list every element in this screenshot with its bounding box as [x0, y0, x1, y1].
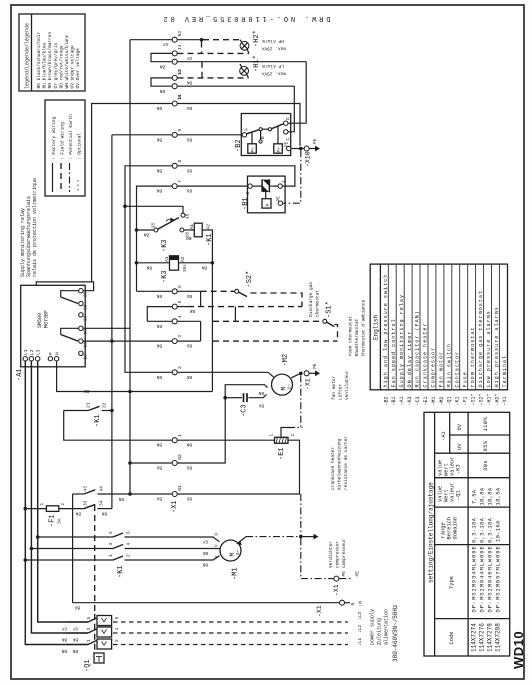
- svg-text:110%: 110%: [482, 417, 489, 432]
- svg-text:6,3-18A: 6,3-18A: [479, 517, 486, 543]
- svg-text:15: 15: [151, 222, 157, 228]
- svg-text:-C3: -C3: [241, 404, 249, 417]
- potential earth E1: [281, 428, 288, 438]
- svg-text:Fan motor: Fan motor: [439, 351, 445, 388]
- svg-text:P: P: [48, 352, 54, 355]
- wire link 5-4: [234, 307, 236, 322]
- supply monitoring relay description: [20, 178, 38, 277]
- legend line-style box: [45, 100, 85, 196]
- wire row 1 heater loop: [64, 411, 172, 441]
- node X10 PE: [291, 138, 320, 167]
- svg-text:3: 3: [177, 335, 183, 338]
- svg-text:-E1: -E1: [278, 447, 286, 460]
- svg-text:BN: BN: [156, 293, 162, 298]
- wire row 5 right: [178, 306, 189, 308]
- svg-text:-Q1: -Q1: [84, 659, 92, 672]
- svg-text:5: 5: [177, 300, 183, 303]
- B1 pressure element: [262, 199, 271, 208]
- svg-text:WD10: WD10: [511, 631, 526, 669]
- node N bus vertical: [129, 40, 131, 494]
- svg-text:BN: BN: [201, 264, 207, 269]
- junction N1: [128, 492, 132, 496]
- run capacitor C3: [223, 390, 266, 408]
- svg-text:-H1*: -H1*: [486, 393, 492, 405]
- pressure switch B2: [241, 114, 291, 156]
- svg-text:BN: BN: [75, 511, 81, 516]
- svg-text:BN: BN: [118, 496, 124, 501]
- pole 3/4: [66, 632, 88, 634]
- svg-text:D: D: [286, 117, 291, 120]
- svg-text:A2: A2: [180, 256, 186, 262]
- svg-text:N1: N1: [177, 485, 183, 491]
- svg-text:6: 6: [126, 531, 132, 534]
- svg-text:Verdichter: Verdichter: [328, 541, 334, 568]
- svg-text:BN: BN: [156, 167, 162, 172]
- wire N2 left: [130, 462, 172, 464]
- svg-text:6,3-18A: 6,3-18A: [487, 517, 494, 543]
- junction A1-18 bus: [110, 339, 114, 343]
- wire L1 phase bus: [25, 361, 88, 645]
- svg-text:114X7276: 114X7276: [479, 623, 486, 652]
- svg-text:BU: BU: [74, 605, 80, 610]
- svg-text:SM500: SM500: [37, 313, 43, 328]
- svg-text:MG73BF: MG73BF: [44, 310, 50, 328]
- A1 terminal P: [48, 357, 52, 361]
- B1 PE terminal: [278, 201, 282, 205]
- wire 7 row to B1-2: [178, 185, 248, 187]
- svg-text:GY: GY: [162, 41, 168, 46]
- Q1 undervoltage release: [94, 614, 96, 653]
- svg-text:-M2: -M2: [439, 396, 445, 405]
- wire terminal 9 branch: [112, 134, 172, 136]
- svg-text:-M1: -M1: [431, 396, 437, 405]
- svg-text:-E1: -E1: [423, 396, 429, 405]
- svg-text:26: 26: [83, 315, 89, 321]
- wire row 6 right: [178, 290, 201, 292]
- svg-text:Contactor: Contactor: [454, 351, 460, 388]
- A1 relay contact 15/18/16: [79, 326, 83, 330]
- svg-text:-B2: -B2: [383, 396, 389, 405]
- svg-text:9: 9: [177, 129, 183, 132]
- svg-text:U: U: [215, 533, 220, 536]
- svg-text:-H2*: -H2*: [494, 393, 500, 405]
- svg-text:14: 14: [177, 44, 183, 50]
- svg-text:B: B: [261, 136, 266, 139]
- wire row 6: [137, 290, 172, 292]
- potential earth bus lower: [300, 494, 302, 537]
- Q1 auxiliary contact 33/34: [75, 500, 111, 515]
- wire dashed link N3-14: [201, 42, 203, 54]
- svg-text:OV: OV: [457, 423, 463, 430]
- timer contact K3 15/16/18: [137, 213, 195, 240]
- svg-text:UV Under voltage: UV Under voltage: [70, 45, 76, 89]
- wire row 3: [178, 340, 201, 342]
- svg-text:W: W: [215, 556, 220, 559]
- svg-text:2: 2: [246, 192, 251, 195]
- svg-text:power supply: power supply: [370, 609, 376, 645]
- terminal 5: [172, 304, 177, 309]
- svg-text:English: English: [373, 314, 380, 340]
- svg-text:BU: BU: [186, 465, 192, 470]
- svg-text:-K3: -K3: [456, 464, 462, 474]
- svg-text:-A1: -A1: [16, 368, 24, 381]
- svg-text:21: 21: [86, 402, 92, 408]
- svg-text:max. 29VA: max. 29VA: [261, 46, 286, 52]
- svg-text:Run capacitor (FAN): Run capacitor (FAN): [415, 310, 421, 387]
- svg-text:-M1: -M1: [232, 567, 240, 580]
- svg-text:8: 8: [177, 160, 183, 163]
- svg-text:BN: BN: [156, 442, 162, 447]
- svg-text:thermostat d'ambiance: thermostat d'ambiance: [361, 299, 367, 356]
- svg-text:Crankcase heater: Crankcase heater: [423, 322, 429, 387]
- svg-text:BN brown/braun/marron: BN brown/braun/marron: [47, 31, 53, 88]
- wire K3-16 branch: [123, 205, 127, 209]
- svg-text:-Q1: -Q1: [447, 396, 453, 405]
- svg-text:compresseur: compresseur: [341, 538, 347, 568]
- svg-text:crankcase heater: crankcase heater: [330, 446, 336, 490]
- wire bridge 6-5: [200, 291, 202, 306]
- svg-text:BN: BN: [156, 374, 162, 379]
- node X1 PE fan: [299, 363, 320, 390]
- svg-text:Lüfter: Lüfter: [338, 383, 344, 400]
- svg-text:2: 2: [291, 434, 296, 437]
- svg-text:OV Over voltage: OV Over voltage: [75, 48, 81, 89]
- Q1 auxiliary contact 43/44: [73, 486, 130, 603]
- svg-text:BN: BN: [156, 105, 162, 110]
- svg-text:BN: BN: [146, 264, 152, 269]
- svg-text:6: 6: [177, 285, 183, 288]
- wire 9 row to B2-A: [178, 134, 242, 136]
- svg-text:: Potential Earth: : Potential Earth: [68, 114, 74, 160]
- svg-text:GY: GY: [186, 55, 192, 60]
- junction node N3 row: [200, 38, 204, 42]
- svg-text:BN: BN: [72, 648, 78, 653]
- svg-text:16: 16: [83, 354, 89, 360]
- svg-text:BN: BN: [156, 136, 162, 141]
- wire dashed link 13-12: [201, 62, 203, 78]
- svg-text:34: 34: [99, 500, 105, 506]
- svg-text:BU: BU: [186, 343, 192, 348]
- jumper 14-13: [151, 53, 172, 61]
- svg-text:3: 3: [108, 543, 114, 546]
- svg-text:30s: 30s: [482, 460, 489, 471]
- room thermostat S1: [323, 319, 338, 341]
- svg-text:114X7278: 114X7278: [487, 623, 494, 652]
- svg-text:OP-MSIM944MLW09E: OP-MSIM944MLW09E: [479, 545, 486, 612]
- svg-text:-K1: -K1: [206, 233, 214, 246]
- svg-text:BK: BK: [61, 637, 67, 642]
- svg-text:33: 33: [83, 500, 89, 506]
- lamp H1: [240, 64, 249, 78]
- svg-text:GY grey/grey/gris: GY grey/grey/gris: [53, 42, 59, 88]
- auxiliary contact K1 21/22: [64, 402, 114, 412]
- svg-text:↓L3: ↓L3: [357, 612, 363, 620]
- B1 triac symbol: [261, 179, 263, 192]
- wire row 8 riser: [125, 166, 172, 372]
- svg-text:2: 2: [61, 503, 66, 506]
- svg-text:15: 15: [83, 329, 89, 335]
- potential earth drop to PE terminal: [301, 538, 334, 578]
- svg-text:BU: BU: [83, 388, 89, 393]
- English legend table: [370, 264, 508, 405]
- svg-text:BU: BU: [186, 105, 192, 110]
- svg-text:-S1*: -S1*: [471, 393, 477, 405]
- svg-text:ventilateur: ventilateur: [344, 370, 350, 400]
- svg-text:alimentation: alimentation: [384, 609, 390, 645]
- wire 8 row to B1-1: [178, 166, 295, 186]
- svg-text:: Field Wiring: : Field Wiring: [60, 122, 66, 160]
- svg-text:Fuse: Fuse: [462, 371, 468, 387]
- A1 terminal L3: [36, 357, 40, 361]
- svg-text:A2: A2: [206, 224, 212, 230]
- svg-text:Discharge gas thermostat: Discharge gas thermostat: [478, 290, 484, 388]
- wire N from A1: [57, 361, 130, 392]
- svg-text:3A: 3A: [57, 518, 63, 524]
- svg-text:43: 43: [83, 486, 89, 492]
- node K1 coil bus: [111, 135, 113, 509]
- wire N3 dashed to H2: [178, 39, 202, 41]
- svg-text:BK: BK: [186, 80, 192, 85]
- svg-text:high and low pressure switch: high and low pressure switch: [383, 274, 389, 388]
- svg-text:↓L1: ↓L1: [357, 638, 363, 646]
- terminal N2: [172, 461, 177, 466]
- svg-text:thermostat: thermostat: [315, 290, 321, 317]
- potential earth bus: [300, 375, 302, 427]
- svg-text:-F1: -F1: [463, 396, 469, 405]
- svg-text:GY: GY: [61, 626, 67, 631]
- fan speed control B1: [246, 176, 287, 213]
- svg-text:BK black/schwarz/noir: BK black/schwarz/noir: [36, 31, 42, 88]
- terminal 3: [172, 339, 177, 344]
- wire B2-D riser: [289, 62, 307, 123]
- svg-text:BN: BN: [156, 188, 162, 193]
- svg-text:Raumthermostat: Raumthermostat: [354, 318, 360, 356]
- svg-text:6,3-18A: 6,3-18A: [471, 517, 478, 543]
- wire row 5 dashed: [188, 306, 302, 308]
- jumper 12-11: [151, 78, 172, 86]
- svg-text:BN: BN: [61, 648, 67, 653]
- contactor coil K1: [189, 223, 212, 391]
- A1 terminal N: [54, 357, 58, 361]
- svg-text:OP-MSIM946MLW09E: OP-MSIM946MLW09E: [487, 545, 494, 612]
- svg-text:A1: A1: [164, 256, 170, 262]
- svg-text:: Optional: : Optional: [77, 133, 83, 160]
- svg-text:GY: GY: [72, 626, 78, 631]
- terminal 13: [172, 59, 177, 64]
- svg-text:PE: PE: [276, 196, 281, 202]
- wire row 4 dashed to S1: [213, 320, 323, 322]
- terminal N3: [172, 37, 177, 42]
- svg-text:room thermostat: room thermostat: [470, 327, 476, 388]
- svg-text:-A1: -A1: [399, 396, 405, 405]
- terminal X1 N: [340, 600, 345, 605]
- svg-text:6: 6: [114, 617, 120, 620]
- svg-text:-S1*: -S1*: [326, 301, 334, 318]
- pole 5/6: [66, 621, 88, 623]
- svg-text:2: 2: [126, 554, 132, 557]
- svg-text:PE: PE: [355, 571, 361, 577]
- timer coil K3: [137, 256, 215, 272]
- terminal 6: [172, 289, 177, 294]
- svg-text:N2: N2: [177, 454, 183, 460]
- svg-text:fan motor: fan motor: [331, 375, 337, 400]
- svg-text:-X1: -X1: [502, 396, 508, 405]
- svg-text:C: C: [286, 138, 291, 141]
- svg-text:-X1: -X1: [305, 378, 312, 390]
- svg-text:Discharge gas: Discharge gas: [308, 282, 314, 317]
- wire above A1 from terminal 10: [36, 282, 93, 291]
- svg-text:setting/Einstellung/ajustage: setting/Einstellung/ajustage: [428, 482, 435, 583]
- svg-text:-K1: -K1: [117, 565, 125, 578]
- terminal 4: [172, 319, 177, 324]
- wire dashed to H2: [203, 39, 240, 41]
- svg-text:BU: BU: [186, 188, 192, 193]
- svg-text:1: 1: [86, 639, 92, 642]
- svg-text:BN: BN: [186, 235, 192, 240]
- svg-text:N3: N3: [177, 31, 183, 37]
- svg-text:18,5A: 18,5A: [495, 487, 502, 505]
- svg-text:-C3: -C3: [415, 396, 421, 405]
- svg-text:-K1: -K1: [94, 414, 102, 427]
- potential earth link B1: [283, 150, 301, 203]
- main switch Q1: [61, 614, 348, 663]
- settings table: [424, 412, 510, 656]
- pole 1/2: [66, 644, 88, 646]
- svg-text:PE: PE: [284, 141, 289, 147]
- wire 11 row to B2-C: [178, 86, 295, 132]
- svg-text:Terminal: Terminal: [502, 355, 508, 388]
- svg-text:Supply monitoring relay: Supply monitoring relay: [399, 294, 405, 387]
- svg-text:-X1: -X1: [333, 584, 340, 596]
- svg-text:85%: 85%: [482, 440, 489, 451]
- terminal 1: [172, 438, 177, 443]
- svg-text:7,5A: 7,5A: [471, 489, 478, 504]
- svg-text:BN: BN: [186, 442, 192, 447]
- svg-text:GY: GY: [202, 539, 208, 544]
- neutral line to supply: [73, 602, 339, 604]
- svg-text:High pressure alarms: High pressure alarms: [494, 306, 500, 387]
- svg-text:10,8A: 10,8A: [479, 487, 486, 505]
- svg-text:BU: BU: [258, 403, 264, 408]
- terminal 2: [172, 370, 177, 375]
- svg-text:L1: L1: [23, 349, 29, 355]
- supply monitoring relay A1: [21, 285, 89, 367]
- svg-text:1: 1: [108, 554, 114, 557]
- wire N2 to C3 node: [178, 398, 226, 463]
- svg-text:M: M: [281, 387, 288, 391]
- svg-text:44: 44: [99, 486, 105, 492]
- svg-text:N: N: [54, 352, 60, 355]
- svg-text:114X7288: 114X7288: [495, 623, 502, 652]
- terminal 10: [172, 101, 177, 106]
- svg-text:OP-MSIM934MLW09E: OP-MSIM934MLW09E: [471, 545, 478, 612]
- fan motor M2: [272, 373, 301, 395]
- svg-text:WH white/weiss/blanc: WH white/weiss/blanc: [64, 34, 70, 88]
- svg-text:10-16A: 10-16A: [495, 520, 502, 542]
- terminal 8: [172, 163, 177, 168]
- fuse F1: [24, 503, 85, 512]
- svg-text:-B1: -B1: [391, 396, 397, 405]
- contactor K1 main contacts: [24, 531, 221, 562]
- svg-text:380-460V3N~/50Hz: 380-460V3N~/50Hz: [392, 604, 399, 662]
- compressor M1: [220, 537, 246, 561]
- svg-text:Compressor: Compressor: [431, 347, 437, 388]
- svg-text:5: 5: [108, 531, 114, 534]
- svg-text:PE: PE: [313, 138, 318, 144]
- svg-text:domaine: domaine: [453, 517, 459, 540]
- svg-text:-H2*: -H2*: [253, 30, 261, 47]
- svg-text:-Q1: -Q1: [456, 490, 462, 500]
- Q1 linkage dashes: [94, 505, 96, 614]
- svg-text:-B2: -B2: [235, 139, 243, 152]
- svg-text:1: 1: [177, 434, 183, 437]
- svg-text:résistance de carter: résistance de carter: [343, 436, 349, 490]
- svg-text:-K3: -K3: [161, 239, 169, 252]
- svg-text:1: 1: [282, 180, 287, 183]
- svg-text:3~: 3~: [235, 550, 241, 556]
- legend colour-code box: [19, 14, 85, 91]
- svg-text:L3: L3: [35, 349, 41, 355]
- svg-text:3: 3: [86, 628, 92, 631]
- svg-text:28: 28: [83, 304, 89, 310]
- svg-text:↓L2: ↓L2: [357, 625, 363, 633]
- svg-text:1: 1: [40, 503, 45, 506]
- svg-text:BN: BN: [143, 232, 149, 237]
- svg-text:A1: A1: [189, 224, 195, 230]
- svg-text:12: 12: [177, 69, 183, 75]
- svg-text:BK: BK: [186, 374, 192, 379]
- junction N bus A1 feed: [128, 390, 132, 394]
- svg-text:P: P: [265, 204, 271, 207]
- svg-text:BN: BN: [156, 343, 162, 348]
- A1 relay contact 25/28/26: [79, 289, 83, 293]
- crankcase heater E1: [130, 434, 300, 495]
- svg-text:BU: BU: [156, 465, 162, 470]
- svg-text:P>: P>: [277, 147, 282, 153]
- svg-text:5: 5: [86, 617, 92, 620]
- X1 terminal strip: [151, 31, 195, 513]
- svg-text:OP-MSIM057MLW09E: OP-MSIM057MLW09E: [495, 545, 502, 612]
- svg-text:-M2: -M2: [282, 354, 290, 367]
- svg-text:BN: BN: [159, 64, 165, 69]
- svg-text:4: 4: [177, 315, 183, 318]
- wire row 5: [147, 307, 172, 322]
- wire row 4 right: [178, 320, 201, 322]
- wire terminal 10 riser: [92, 104, 172, 282]
- svg-text:-K1: -K1: [455, 396, 461, 405]
- svg-text:compressor: compressor: [335, 541, 341, 568]
- wire row 3 dashed: [213, 340, 338, 342]
- junction K3 coil: [135, 261, 139, 265]
- wire row 2 to fan motor: [178, 372, 274, 377]
- svg-text:BN: BN: [156, 323, 162, 328]
- terminal 9: [172, 132, 177, 137]
- discharge gas thermostat S2: [235, 289, 302, 306]
- svg-text:N: N: [350, 603, 356, 606]
- svg-text:BU: BU: [156, 496, 162, 501]
- svg-text:↓N: ↓N: [358, 601, 364, 607]
- wire 10 row to PE node: [178, 104, 301, 147]
- svg-text:-X1: -X1: [171, 500, 179, 513]
- svg-text:BK: BK: [189, 308, 195, 313]
- wire 13 row to B2-D: [178, 61, 307, 63]
- svg-text:L2: L2: [29, 349, 35, 355]
- svg-text:M: M: [229, 553, 236, 557]
- wire C3 node up to fan aux: [225, 385, 267, 398]
- svg-text:-B1: -B1: [242, 197, 250, 210]
- svg-text:-K3: -K3: [407, 396, 413, 405]
- wire row 7 riser: [137, 186, 173, 291]
